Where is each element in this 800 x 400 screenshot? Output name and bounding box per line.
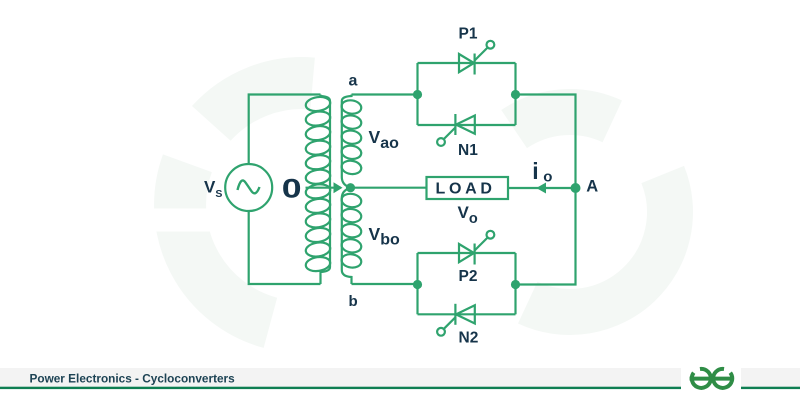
svg-text:N1: N1 — [458, 142, 478, 159]
junction bottom right dot — [511, 280, 520, 289]
bottom bridge right rail — [514, 253, 516, 314]
node a wire — [352, 93, 418, 95]
wire LOAD to node A — [508, 187, 576, 189]
transformer secondary upper winding Vao — [341, 95, 362, 188]
GeeksforGeeks logo — [690, 369, 733, 388]
node b wire — [352, 283, 418, 285]
thyristor N1 — [437, 114, 475, 146]
top bridge N1 branch wire — [418, 124, 516, 126]
thyristor P2 — [459, 231, 494, 265]
thyristor N2 — [437, 304, 475, 336]
footer green line — [0, 387, 681, 389]
transformer primary winding — [305, 95, 331, 285]
wire center tap to LOAD — [351, 187, 427, 189]
svg-text:LOAD: LOAD — [436, 180, 496, 197]
io arrow — [536, 183, 546, 194]
junction node b dot — [413, 280, 422, 289]
svg-text:b: b — [349, 293, 358, 310]
node A dot — [571, 183, 581, 193]
svg-text:A: A — [586, 177, 598, 195]
center tap arrow — [334, 182, 343, 193]
wire Vs bottom to primary — [249, 211, 321, 284]
center tap 0 line — [306, 187, 342, 189]
LOAD box — [427, 177, 509, 199]
svg-text:a: a — [349, 73, 358, 90]
bottom bridge P2 branch wire — [418, 252, 516, 254]
top bridge P1 branch wire — [418, 62, 516, 64]
top bridge right rail — [514, 63, 516, 125]
bottom bridge N2 branch wire — [418, 313, 516, 315]
center tap junction dot — [346, 183, 355, 192]
wire top bridge to A column — [516, 95, 576, 189]
svg-text:Power Electronics - Cycloconve: Power Electronics - Cycloconverters — [30, 372, 236, 386]
wire Vs top to primary — [249, 95, 321, 165]
ac source VS circle — [225, 164, 272, 211]
bottom bridge left rail — [416, 253, 418, 314]
svg-text:P2: P2 — [459, 268, 478, 285]
svg-text:0: 0 — [282, 173, 302, 204]
footer bar — [0, 368, 681, 388]
svg-text:N2: N2 — [459, 329, 479, 346]
junction node a dot — [413, 90, 422, 99]
wire bottom bridge to A column — [516, 188, 576, 285]
svg-text:P1: P1 — [459, 25, 478, 42]
top bridge left rail — [416, 63, 418, 125]
transformer secondary lower winding Vbo — [341, 188, 362, 284]
thyristor P1 — [459, 41, 494, 75]
junction top right dot — [511, 90, 520, 99]
ac source sine wave — [238, 180, 260, 193]
